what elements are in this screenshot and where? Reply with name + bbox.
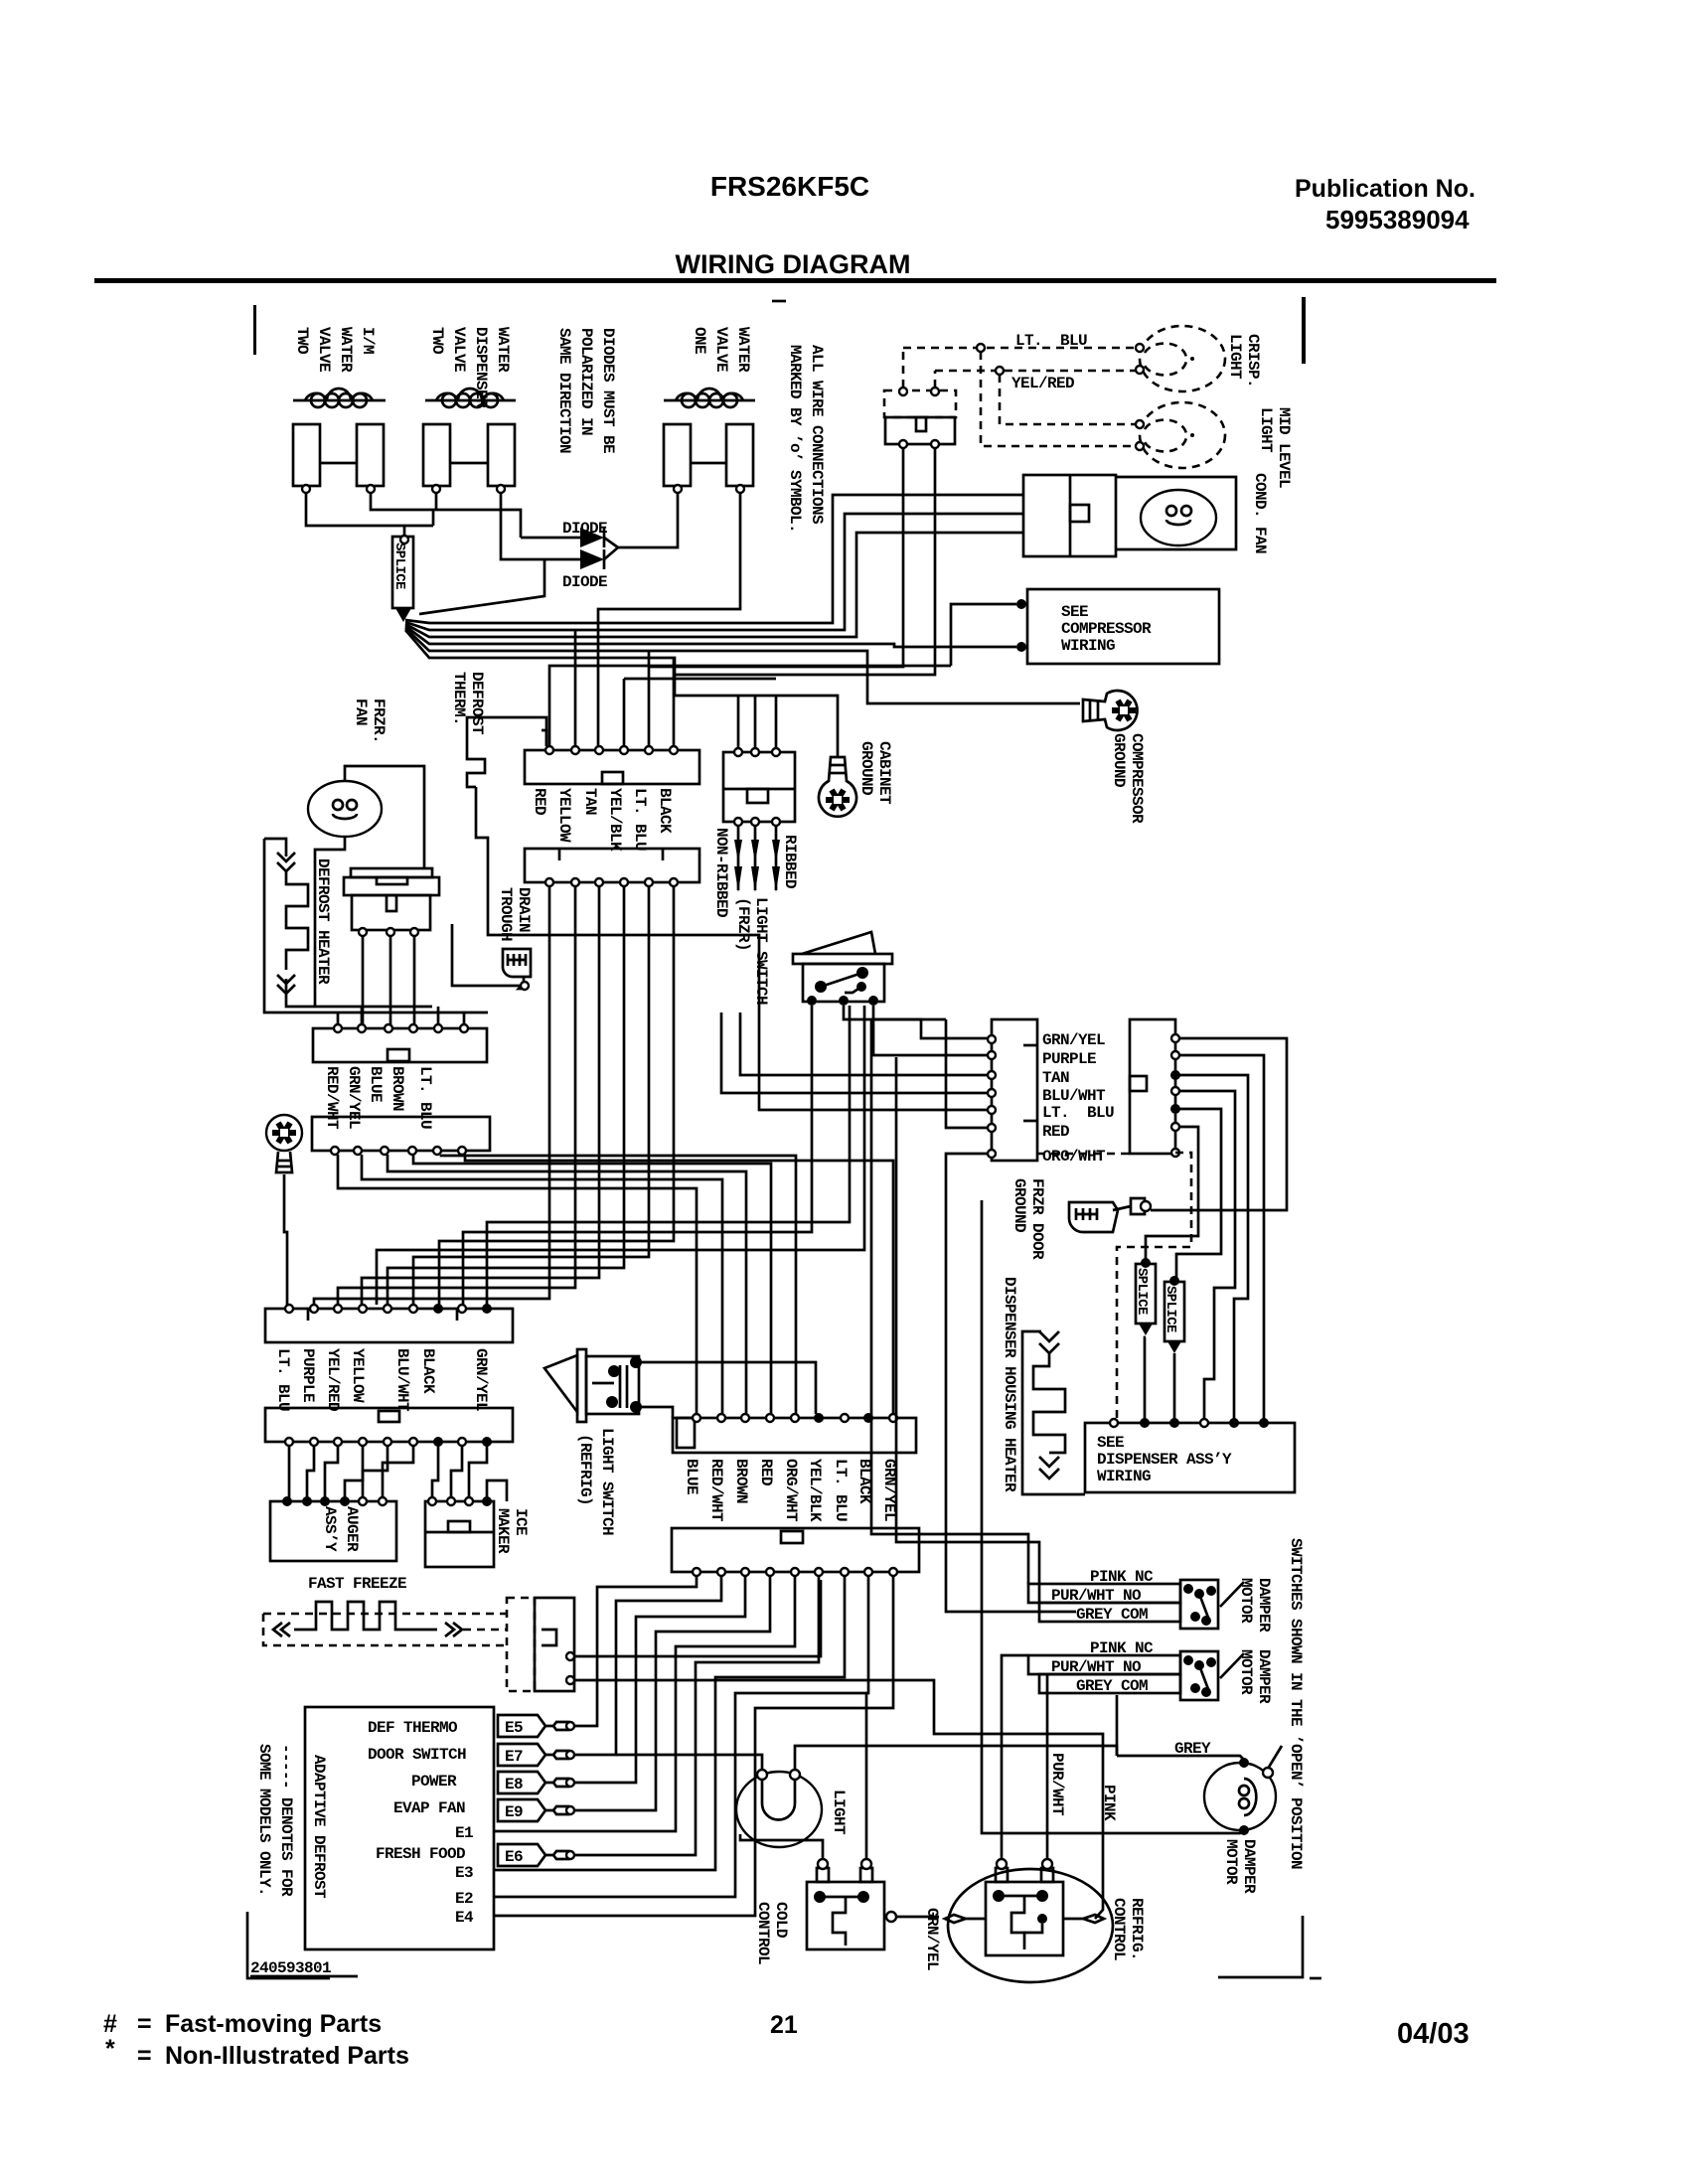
wire thermostat to timer <box>476 787 988 1110</box>
wire B1 feeds <box>338 1007 464 1024</box>
wire TAN loop to dispenser box <box>1179 1075 1248 1419</box>
svg-text:TAN: TAN <box>1042 1069 1069 1087</box>
wire diode D1 anode to splice <box>419 559 544 614</box>
wire light bulb left <box>616 1755 762 1770</box>
svg-text:FAN: FAN <box>352 699 370 725</box>
svg-text:RED: RED <box>531 788 548 815</box>
svg-text:04/03: 04/03 <box>1397 2018 1470 2050</box>
label DAMPER MOTOR 3 <box>1222 1839 1258 1894</box>
wire E4 stair <box>494 1576 893 1916</box>
svg-text:Publication No.: Publication No. <box>1295 175 1475 203</box>
label ICE MAKER <box>494 1508 530 1554</box>
svg-text:BLACK: BLACK <box>419 1348 437 1394</box>
svg-text:*: * <box>105 2035 115 2063</box>
wire PURPLE loop to dispenser box <box>1179 1055 1264 1419</box>
svg-text:DAMPER: DAMPER <box>1240 1839 1258 1894</box>
svg-text:E9: E9 <box>505 1803 523 1821</box>
wire fast freeze pin1 <box>574 1580 821 1656</box>
svg-text:LIGHT: LIGHT <box>830 1790 848 1835</box>
wire light switch frzr pin2 to box A <box>844 1006 988 1038</box>
wire fan bottom down <box>315 837 345 868</box>
svg-text:DRAIN: DRAIN <box>515 887 533 932</box>
wire dashed org/wht to dispenser box <box>1117 1153 1191 1419</box>
svg-text:GROUND: GROUND <box>857 741 875 795</box>
frzr fan motor <box>308 781 382 837</box>
wire E7 stair <box>574 1576 721 1755</box>
svg-text:VALVE: VALVE <box>712 327 730 372</box>
wire plug left down <box>649 448 903 667</box>
wire refrig control stud1 up <box>1002 1655 1028 1860</box>
labels RED YELLOW TAN YEL/BLK LT.BLU BLACK <box>531 788 674 852</box>
svg-text:GRN/YEL: GRN/YEL <box>472 1348 490 1411</box>
ice maker box <box>425 1496 494 1567</box>
mid level light lamp <box>1136 402 1225 468</box>
svg-text:240593801: 240593801 <box>250 1959 331 1977</box>
fast freeze switch <box>507 1598 574 1691</box>
wire bundle line 6 to cabinet ground <box>405 630 838 757</box>
defrost timer assembly <box>344 868 439 936</box>
wire light switch refrig top to box U <box>640 1362 816 1414</box>
wire GRN/YEL loop to frzr door ground <box>1151 1038 1287 1210</box>
dashed wire to mid level light bottom <box>981 352 1136 446</box>
wire E5 stair <box>574 1576 697 1726</box>
defrost heater resistor <box>264 839 488 1012</box>
svg-text:21: 21 <box>770 2011 798 2039</box>
svg-text:BLU/WHT: BLU/WHT <box>393 1348 411 1412</box>
defrost thermostat symbol <box>467 745 485 787</box>
svg-text:LT. BLU: LT. BLU <box>416 1066 434 1129</box>
wire GREY to damper motor <box>1117 1756 1244 1760</box>
wire damper motor diagonal <box>1268 1746 1282 1769</box>
wire E8 stair <box>574 1576 745 1783</box>
labels RED/WHT GRN/YEL BLUE BROWN LT. BLU <box>323 1066 434 1130</box>
wire compressor box upper pin <box>951 604 1016 666</box>
svg-text:TWO: TWO <box>428 327 446 355</box>
ground screw left <box>266 1115 302 1172</box>
svg-text:THERM.: THERM. <box>450 672 468 725</box>
wire center verticals to B3 <box>314 886 549 1305</box>
svg-text:LT. BLU: LT. BLU <box>274 1348 292 1411</box>
svg-text:#: # <box>103 2010 117 2038</box>
wire box A feed rows <box>721 1012 988 1093</box>
svg-text:SPLICE: SPLICE <box>1134 1268 1150 1315</box>
svg-text:DEF THERMO: DEF THERMO <box>368 1719 458 1737</box>
connector plug P1 <box>884 388 956 448</box>
svg-text:YEL/BLK: YEL/BLK <box>606 788 624 852</box>
label DAMPER MOTOR 1 <box>1237 1578 1273 1633</box>
E9 terminal <box>498 1799 574 1821</box>
wire damper feeds left <box>871 1019 1028 1584</box>
svg-text:GROUND: GROUND <box>1010 1178 1028 1232</box>
wire E1 stair <box>494 1576 795 1831</box>
svg-text:RIBBED: RIBBED <box>781 835 799 888</box>
svg-text:I/M: I/M <box>359 327 377 354</box>
svg-text:GRN/YEL: GRN/YEL <box>345 1066 363 1129</box>
svg-text:ADAPTIVE DEFROST: ADAPTIVE DEFROST <box>310 1755 328 1899</box>
wire damper2 com to grey <box>1116 1695 1119 1756</box>
right connector box B <box>1130 1019 1180 1157</box>
splice S1 <box>391 537 413 622</box>
svg-text:ORG/WHT: ORG/WHT <box>1042 1148 1106 1166</box>
svg-text:BLACK: BLACK <box>656 788 674 834</box>
svg-text:E4: E4 <box>455 1909 474 1927</box>
wire diode D1 to valve3.t1 <box>618 493 678 547</box>
label DEFROST THERM. <box>450 672 486 735</box>
diode D1 <box>521 520 618 547</box>
svg-text:PUR/WHT: PUR/WHT <box>1048 1753 1066 1816</box>
svg-text:PURPLE: PURPLE <box>299 1348 317 1402</box>
svg-text:CONTROL: CONTROL <box>1110 1898 1128 1960</box>
svg-text:RED: RED <box>1042 1123 1069 1141</box>
svg-text:LT. BLU: LT. BLU <box>1015 332 1087 350</box>
svg-text:SPLICE: SPLICE <box>391 543 407 589</box>
center connector row 2 drain trough <box>525 849 699 886</box>
wire bundle line 3 to relay <box>405 533 1023 637</box>
svg-text:VALVE: VALVE <box>315 327 333 372</box>
wire drain trough lead <box>452 924 521 986</box>
left connector box B2 <box>312 1117 490 1155</box>
svg-text:COMPRESSOR: COMPRESSOR <box>1061 620 1152 638</box>
svg-text:ONE: ONE <box>691 327 708 354</box>
wire ground screw to B3 pin1 <box>284 1174 287 1305</box>
label REFRIG. CONTROL <box>1110 1898 1146 1960</box>
svg-text:VALVE: VALVE <box>450 327 468 372</box>
svg-text:FAST FREEZE: FAST FREEZE <box>308 1575 406 1593</box>
svg-text:RED: RED <box>757 1459 775 1485</box>
label CABINET GROUND <box>857 741 893 805</box>
svg-text:DOOR SWITCH: DOOR SWITCH <box>368 1746 466 1764</box>
svg-text:POWER: POWER <box>411 1773 457 1791</box>
svg-text:GREY COM: GREY COM <box>1076 1677 1148 1695</box>
svg-text:BROWN: BROWN <box>732 1459 750 1503</box>
wire fan left leg <box>314 868 317 1007</box>
svg-text:ASS’Y: ASS’Y <box>321 1506 339 1552</box>
corner bracket bottom-left <box>247 1912 330 1978</box>
svg-text:SEE: SEE <box>1061 603 1088 621</box>
svg-text:WATER: WATER <box>734 327 752 373</box>
svg-text:E1: E1 <box>455 1824 473 1842</box>
dashed org/wht stub <box>1037 1153 1130 1156</box>
cabinet ground screw <box>819 757 856 817</box>
wire cold control stud2 up <box>865 1693 868 1860</box>
wire RED loop to splice S2 <box>1146 1127 1198 1262</box>
svg-text:COND. FAN: COND. FAN <box>1251 473 1269 553</box>
splice S3 <box>1163 1276 1184 1353</box>
wire drops to ribbed connector <box>738 696 776 748</box>
label FRZR DOOR GROUND <box>1010 1178 1046 1260</box>
svg-text:WIRING: WIRING <box>1061 637 1115 655</box>
label LIGHT SWITCH (FRZR) <box>734 897 770 1005</box>
labels BLUE..GRN/YEL <box>683 1459 898 1522</box>
label COMPRESSOR GROUND <box>1110 733 1146 824</box>
svg-text:COMPRESSOR: COMPRESSOR <box>1128 733 1146 824</box>
right tick <box>1302 297 1306 364</box>
svg-text:PURPLE: PURPLE <box>1042 1050 1096 1068</box>
wire fast freeze pin2 PINK <box>574 1680 1103 1919</box>
dashed wire to mid level light top <box>1000 375 1136 424</box>
label I/M WATER VALVE TWO <box>293 327 377 373</box>
svg-text:ORG/WHT: ORG/WHT <box>782 1459 800 1522</box>
wires B4 to auger/ice maker <box>288 1446 291 1497</box>
svg-text:NON-RIBBED: NON-RIBBED <box>712 828 730 917</box>
solenoid valve V2 WATER DISPENSER VALVE TWO <box>423 389 516 493</box>
fan frame <box>1116 477 1236 549</box>
svg-text:LIGHT: LIGHT <box>1257 407 1275 453</box>
svg-text:LIGHT: LIGHT <box>1226 334 1244 380</box>
left connector box B4 <box>265 1408 513 1447</box>
wire E9 stair <box>574 1576 770 1810</box>
svg-text:=: = <box>137 2042 152 2070</box>
E6 terminal <box>498 1844 574 1866</box>
svg-text:SAME DIRECTION: SAME DIRECTION <box>555 328 573 453</box>
wire timer pins down <box>363 936 414 1028</box>
light switch REFRIG <box>544 1349 642 1422</box>
wire B2 stairs to box U <box>338 1155 697 1414</box>
svg-text:BLUE: BLUE <box>683 1459 700 1494</box>
wire thermostat top <box>467 717 546 746</box>
svg-text:MOTOR: MOTOR <box>1237 1578 1255 1624</box>
wire bundle line 4 to compressor box <box>405 626 1016 647</box>
damper motor M1 <box>1204 1758 1276 1835</box>
svg-text:FRZR DOOR: FRZR DOOR <box>1028 1178 1046 1260</box>
svg-text:MOTOR: MOTOR <box>1222 1839 1240 1885</box>
svg-text:SEE: SEE <box>1097 1434 1124 1452</box>
wire light switch refrig bottom to box U <box>640 1407 673 1418</box>
svg-text:LIGHT SWITCH: LIGHT SWITCH <box>752 897 770 1005</box>
crisp light lamp <box>1136 326 1225 391</box>
dashed wire YEL/RED <box>935 367 1136 392</box>
frzr door ground clip <box>1069 1198 1151 1232</box>
svg-text:TROUGH: TROUGH <box>497 887 515 941</box>
solenoid valve V3 WATER VALVE ONE <box>664 389 755 493</box>
svg-text:5995389094: 5995389094 <box>1325 205 1470 234</box>
svg-text:E8: E8 <box>505 1776 523 1793</box>
labels LT.BLU PURPLE YEL/RED YELLOW BLU/WHT BLACK GRN/YEL <box>274 1348 490 1412</box>
svg-text:E5: E5 <box>505 1719 523 1737</box>
svg-text:SPLICE: SPLICE <box>1163 1286 1178 1332</box>
wire bundle line 2 to relay <box>405 514 1023 630</box>
svg-text:RED/WHT: RED/WHT <box>707 1459 725 1522</box>
svg-text:WATER: WATER <box>494 327 512 373</box>
svg-text:GREY COM: GREY COM <box>1076 1606 1148 1624</box>
label DRAIN TROUGH <box>497 887 533 941</box>
svg-text:LT. BLU: LT. BLU <box>832 1459 850 1521</box>
svg-text:DIODE: DIODE <box>562 573 607 591</box>
wire bundle line 1 to relay <box>405 495 1023 623</box>
svg-text:MOTOR: MOTOR <box>1237 1649 1255 1695</box>
svg-text:E3: E3 <box>455 1864 473 1882</box>
wire valve2.t2 to splice <box>501 493 525 559</box>
wire cold control stud1 up <box>740 1834 823 1860</box>
svg-text:RED/WHT: RED/WHT <box>323 1066 341 1130</box>
label MID LEVEL LIGHT <box>1257 407 1293 488</box>
wire E6 stair <box>574 1576 819 1855</box>
wire splice S3 to dispenser box <box>1173 1353 1176 1419</box>
svg-text:GRN/YEL: GRN/YEL <box>1042 1031 1105 1049</box>
wire bundle line 5 to compressor ground <box>405 628 1080 703</box>
svg-text:E7: E7 <box>505 1748 523 1766</box>
wire long verticals to B3 <box>487 1006 850 1305</box>
svg-text:YEL/RED: YEL/RED <box>324 1348 342 1411</box>
svg-text:YELLOW: YELLOW <box>349 1348 367 1403</box>
wire light bulb right to GREY <box>795 1746 1117 1770</box>
label WATER VALVE ONE <box>691 327 752 373</box>
svg-text:Fast-moving Parts: Fast-moving Parts <box>165 2010 382 2038</box>
wire E3 stair <box>494 1576 845 1870</box>
compressor ground lug <box>1083 691 1138 730</box>
svg-text:SOME MODELS ONLY.: SOME MODELS ONLY. <box>255 1744 273 1896</box>
damper switch group 2 <box>1028 1639 1244 1700</box>
svg-text:LT. BLU: LT. BLU <box>1042 1104 1114 1122</box>
svg-text:DAMPER: DAMPER <box>1255 1649 1273 1704</box>
svg-text:DISPENSER HOUSING HEATER: DISPENSER HOUSING HEATER <box>1001 1277 1018 1492</box>
label DAMPER MOTOR 2 <box>1237 1649 1273 1704</box>
svg-text:TAN: TAN <box>581 788 599 815</box>
solenoid valve V1 I/M WATER VALVE TWO <box>293 389 386 493</box>
svg-text:MARKED BY ’o’ SYMBOL.: MARKED BY ’o’ SYMBOL. <box>786 345 804 533</box>
auger assy box <box>270 1496 396 1561</box>
svg-text:AUGER: AUGER <box>343 1506 361 1552</box>
relay box <box>1023 475 1116 556</box>
wire refrig control stud2 PUR/WHT up <box>1046 1674 1049 1860</box>
svg-text:CABINET: CABINET <box>875 741 893 805</box>
svg-text:E6: E6 <box>505 1848 523 1866</box>
E5 terminal <box>498 1715 574 1737</box>
svg-text:REFRIG.: REFRIG. <box>1128 1898 1146 1960</box>
label LIGHT SWITCH (REFRIG) <box>576 1428 616 1535</box>
wire light switch frzr pin3 to box A <box>873 1006 988 1055</box>
svg-text:BLUE: BLUE <box>367 1066 385 1102</box>
svg-text:Non-Illustrated Parts: Non-Illustrated Parts <box>165 2042 409 2070</box>
E8 terminal <box>498 1772 574 1793</box>
svg-text:YELLOW: YELLOW <box>555 788 573 843</box>
wire drops to center connector <box>575 630 674 746</box>
label FRZR. FAN <box>352 699 388 743</box>
wire valve1.t2 to valve2.t1 <box>371 493 521 538</box>
svg-text:FRS26KF5C: FRS26KF5C <box>710 171 869 202</box>
splice S2 <box>1134 1258 1156 1335</box>
wire valve1.t1 to splice <box>306 493 433 526</box>
svg-text:MID LEVEL: MID LEVEL <box>1275 407 1293 488</box>
note DENOTES FOR SOME MODELS ONLY <box>255 1744 295 1897</box>
fast freeze dashed resistor <box>263 1602 507 1645</box>
svg-text:=: = <box>137 2010 152 2038</box>
box L <box>672 1528 919 1576</box>
note ALL WIRE CONNECTIONS MARKED BY 'o' SYMBOL. <box>786 345 826 533</box>
corner bracket bottom-right <box>1218 1916 1303 1977</box>
svg-text:CRISP.: CRISP. <box>1244 334 1262 388</box>
wire splice S2 to dispenser box <box>1145 1337 1146 1419</box>
dispenser housing heater resistor <box>1022 1331 1085 1494</box>
svg-text:DISPENSER ASS’Y: DISPENSER ASS’Y <box>1097 1451 1232 1469</box>
svg-text:FRZR.: FRZR. <box>370 699 388 743</box>
svg-text:----- DENOTES FOR: ----- DENOTES FOR <box>277 1744 295 1897</box>
wire labels GRN/YEL..ORG/WHT <box>1042 1031 1114 1166</box>
svg-text:BLU/WHT: BLU/WHT <box>1042 1087 1106 1105</box>
svg-text:MAKER: MAKER <box>494 1508 512 1554</box>
svg-text:TWO: TWO <box>293 327 311 355</box>
see dispenser assy wiring box <box>1085 1418 1295 1492</box>
drain trough heater icon <box>503 949 531 990</box>
wire motor bottom long run <box>982 1200 1244 1833</box>
svg-text:COLD: COLD <box>772 1902 790 1938</box>
wire BLU/WHT loop to dispenser box <box>1179 1091 1235 1419</box>
wire LT BLU loop to splice S3 <box>1176 1109 1221 1280</box>
cond fan motor <box>1141 490 1216 545</box>
label CRISP. LIGHT <box>1226 334 1262 388</box>
svg-text:ALL WIRE CONNECTIONS: ALL WIRE CONNECTIONS <box>808 345 826 525</box>
left tick <box>253 305 256 355</box>
svg-text:DISPENSER: DISPENSER <box>472 327 490 408</box>
svg-text:WATER: WATER <box>337 327 355 373</box>
svg-text:DIODES MUST BE: DIODES MUST BE <box>599 328 617 453</box>
label WATER DISPENSER VALVE TWO <box>428 327 512 408</box>
box U <box>673 1413 916 1453</box>
wire diode D2 to valve3.t2 <box>598 493 740 746</box>
svg-text:GROUND: GROUND <box>1110 733 1128 787</box>
dashed wire LT. BLU <box>903 332 1136 388</box>
svg-text:SWITCHES SHOWN IN THE ’OPEN’ P: SWITCHES SHOWN IN THE ’OPEN’ POSITION <box>1287 1538 1305 1869</box>
wire light switch frzr pin1 to B3 <box>463 1006 812 1305</box>
wire fan top to timer <box>345 766 424 868</box>
label AUGER ASS'Y <box>321 1506 361 1552</box>
wire plug right down <box>674 448 935 675</box>
svg-text:(REFRIG): (REFRIG) <box>576 1434 594 1505</box>
svg-text:LT. BLU: LT. BLU <box>631 788 649 851</box>
svg-text:DAMPER: DAMPER <box>1255 1578 1273 1633</box>
wire cold control to refrig control <box>896 1916 939 1919</box>
diode D2 <box>525 547 618 591</box>
wire E2 stair <box>494 1576 868 1897</box>
note DIODES MUST BE POLARIZED IN SAME DIRECTION <box>555 328 617 453</box>
svg-text:FRESH FOOD: FRESH FOOD <box>376 1845 465 1863</box>
E7 terminal <box>498 1744 574 1766</box>
svg-text:WIRING: WIRING <box>1097 1468 1151 1485</box>
svg-text:WIRING DIAGRAM: WIRING DIAGRAM <box>676 249 911 279</box>
svg-text:YEL/BLK: YEL/BLK <box>806 1459 824 1522</box>
svg-text:E2: E2 <box>455 1890 473 1908</box>
svg-text:DEFROST HEATER: DEFROST HEATER <box>314 858 332 985</box>
svg-text:(FRZR): (FRZR) <box>734 897 752 951</box>
svg-text:LIGHT SWITCH: LIGHT SWITCH <box>598 1428 616 1535</box>
svg-text:CONTROL: CONTROL <box>754 1902 772 1964</box>
svg-text:DEFROST: DEFROST <box>468 672 486 735</box>
ribbed arrows <box>734 826 780 892</box>
svg-text:POLARIZED IN: POLARIZED IN <box>577 328 595 435</box>
heading rule <box>94 278 1496 283</box>
svg-text:YEL/RED: YEL/RED <box>1011 375 1074 392</box>
svg-text:EVAP FAN: EVAP FAN <box>393 1799 465 1817</box>
label COLD CONTROL <box>754 1902 790 1964</box>
wire defrost therm top to center box <box>542 730 546 746</box>
svg-text:ICE: ICE <box>512 1508 530 1535</box>
svg-text:BROWN: BROWN <box>388 1066 406 1111</box>
